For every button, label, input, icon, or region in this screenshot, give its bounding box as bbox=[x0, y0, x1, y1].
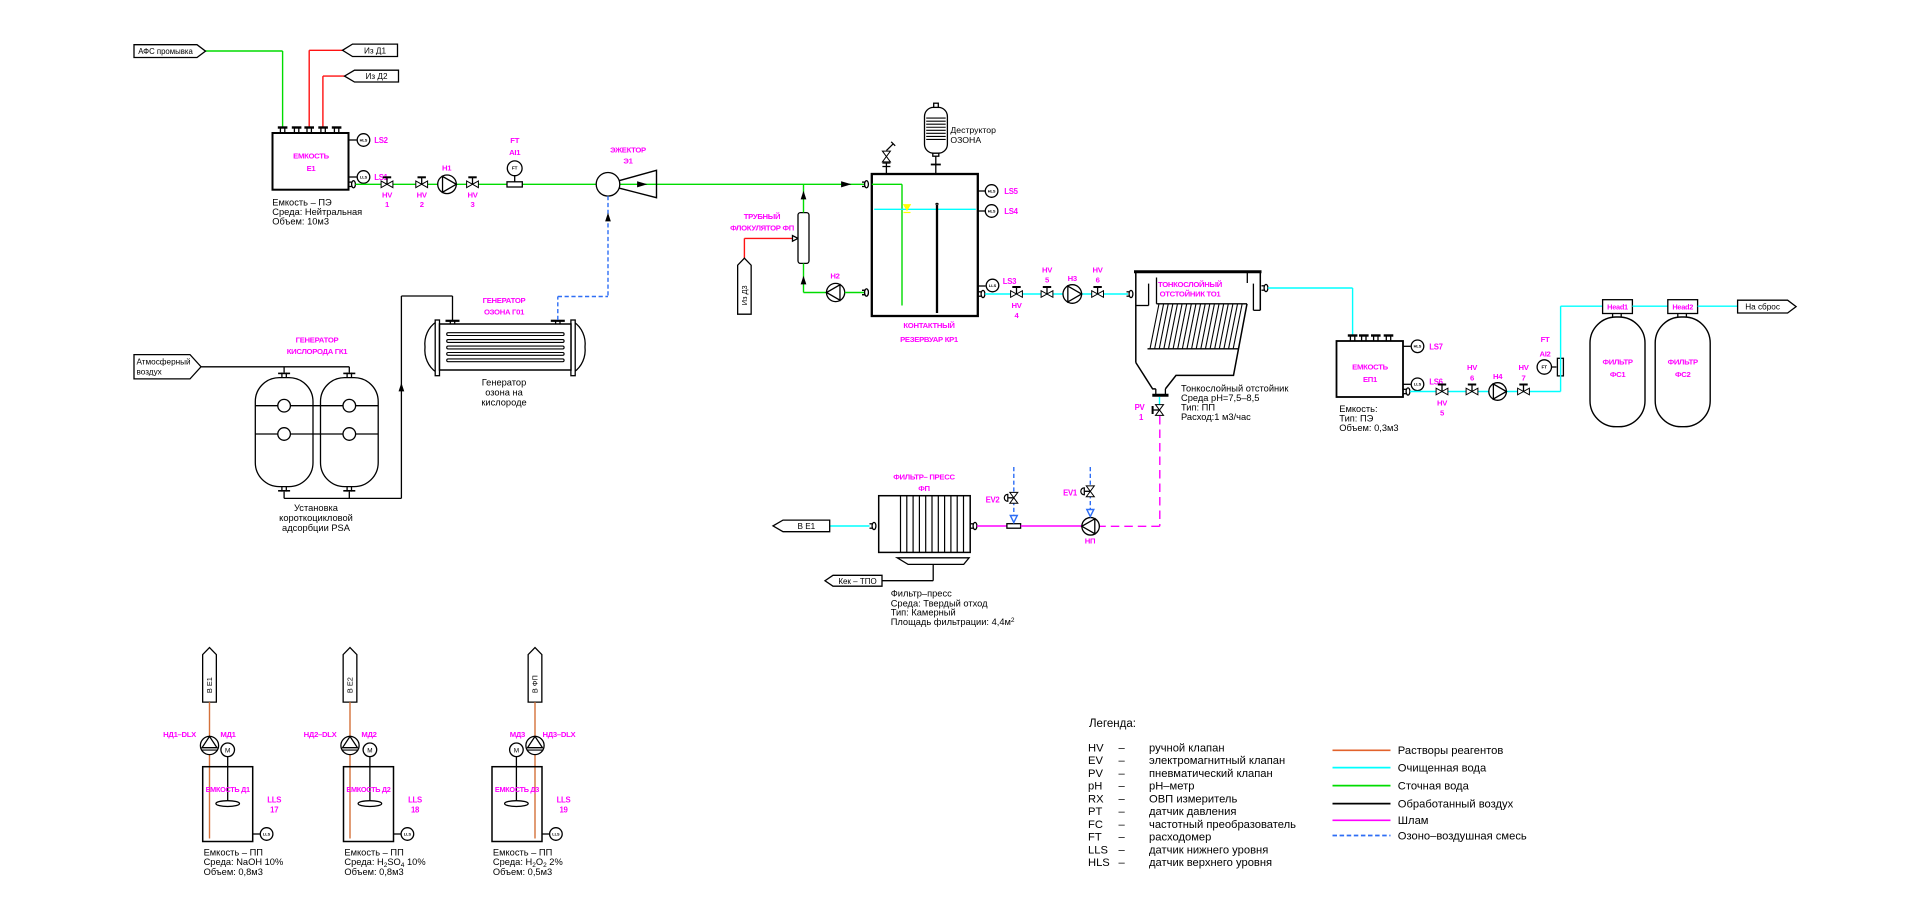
svg-text:HLS: HLS bbox=[988, 188, 996, 193]
svg-text:Озоно–воздушная смесь: Озоно–воздушная смесь bbox=[1398, 830, 1527, 842]
svg-text:HV: HV bbox=[1437, 399, 1448, 408]
svg-text:–: – bbox=[1119, 857, 1126, 869]
svg-text:18: 18 bbox=[411, 805, 420, 814]
svg-text:LS7: LS7 bbox=[1429, 342, 1442, 351]
svg-text:Емкость – ПП: Емкость – ПП bbox=[493, 847, 552, 857]
svg-text:Сточная вода: Сточная вода bbox=[1398, 780, 1470, 792]
svg-text:LLS: LLS bbox=[1088, 844, 1108, 856]
svg-text:В Е2: В Е2 bbox=[346, 677, 355, 693]
svg-text:PV: PV bbox=[1135, 403, 1146, 412]
svg-text:ОТСТОЙНИК ТО1: ОТСТОЙНИК ТО1 bbox=[1160, 290, 1222, 299]
svg-text:LS5: LS5 bbox=[1004, 187, 1018, 196]
svg-text:Кек – ТПО: Кек – ТПО bbox=[838, 577, 876, 586]
svg-text:Фильтр–пресс: Фильтр–пресс bbox=[891, 589, 952, 599]
svg-text:LLS: LLS bbox=[1414, 382, 1422, 387]
svg-text:ФЛОКУЛЯТОР ФП: ФЛОКУЛЯТОР ФП bbox=[730, 224, 795, 233]
svg-text:M: M bbox=[225, 747, 230, 754]
svg-text:EV2: EV2 bbox=[986, 496, 1001, 505]
svg-text:HLS: HLS bbox=[1088, 857, 1110, 869]
svg-text:ГЕНЕРАТОР: ГЕНЕРАТОР bbox=[296, 336, 339, 345]
svg-text:Емкость – ПП: Емкость – ПП bbox=[204, 847, 263, 857]
svg-text:В ФП: В ФП bbox=[531, 675, 540, 693]
svg-text:EV: EV bbox=[1088, 755, 1103, 767]
svg-text:На сброс: На сброс bbox=[1745, 303, 1780, 312]
svg-text:RX: RX bbox=[1088, 793, 1104, 805]
svg-text:КОНТАКТНЫЙ: КОНТАКТНЫЙ bbox=[903, 321, 955, 330]
svg-text:Деструктор: Деструктор bbox=[950, 125, 996, 135]
svg-text:3: 3 bbox=[471, 200, 475, 209]
svg-text:6: 6 bbox=[1470, 374, 1474, 383]
svg-text:HLS: HLS bbox=[1414, 344, 1422, 349]
svg-text:EV1: EV1 bbox=[1063, 489, 1078, 498]
svg-text:LLS: LLS bbox=[360, 174, 368, 179]
svg-text:Объем: 0,8м3: Объем: 0,8м3 bbox=[204, 867, 263, 877]
svg-text:ОЗОНА Г01: ОЗОНА Г01 bbox=[484, 308, 525, 317]
svg-text:Генератор: Генератор bbox=[482, 378, 527, 388]
svg-text:LLS: LLS bbox=[557, 795, 571, 804]
svg-text:МД3: МД3 bbox=[510, 730, 525, 739]
svg-text:МД2: МД2 bbox=[361, 730, 376, 739]
svg-text:LLS: LLS bbox=[404, 831, 412, 836]
svg-text:частотный преобразователь: частотный преобразователь bbox=[1149, 819, 1296, 831]
svg-text:пневматический клапан: пневматический клапан bbox=[1149, 768, 1273, 780]
svg-text:–: – bbox=[1119, 781, 1126, 793]
svg-text:HV: HV bbox=[1518, 363, 1529, 372]
svg-text:FT: FT bbox=[512, 166, 518, 171]
svg-text:PV: PV bbox=[1088, 768, 1103, 780]
svg-text:Из Д3: Из Д3 bbox=[740, 285, 749, 305]
svg-text:PT: PT bbox=[1088, 806, 1102, 818]
svg-text:Объем: 0,3м3: Объем: 0,3м3 bbox=[1339, 423, 1398, 433]
svg-text:–: – bbox=[1119, 832, 1126, 844]
svg-text:AI2: AI2 bbox=[1539, 350, 1550, 359]
svg-text:Атмосферный: Атмосферный bbox=[137, 357, 191, 366]
svg-text:–: – bbox=[1119, 742, 1126, 754]
svg-text:pH: pH bbox=[1088, 781, 1102, 793]
svg-text:Из Д2: Из Д2 bbox=[365, 72, 387, 81]
svg-text:НП: НП bbox=[1085, 537, 1096, 546]
svg-text:кислороде: кислороде bbox=[481, 398, 526, 408]
svg-text:LLS: LLS bbox=[267, 795, 281, 804]
svg-text:воздух: воздух bbox=[137, 368, 162, 377]
svg-text:Объем: 0,5м3: Объем: 0,5м3 bbox=[493, 867, 552, 877]
svg-text:Head2: Head2 bbox=[1672, 303, 1693, 312]
svg-text:Среда: NaOH 10%: Среда: NaOH 10% bbox=[204, 857, 284, 867]
svg-text:ФС2: ФС2 bbox=[1675, 370, 1691, 379]
svg-text:Расход:1 м3/час: Расход:1 м3/час bbox=[1181, 412, 1251, 422]
svg-text:HV: HV bbox=[382, 191, 393, 200]
svg-text:ФП: ФП bbox=[918, 484, 930, 493]
svg-text:6: 6 bbox=[1096, 276, 1100, 285]
svg-text:19: 19 bbox=[559, 805, 568, 814]
svg-text:ЭЖЕКТОР: ЭЖЕКТОР bbox=[610, 145, 646, 154]
svg-text:HV: HV bbox=[1088, 742, 1104, 754]
svg-text:Э1: Э1 bbox=[623, 157, 633, 166]
svg-text:17: 17 bbox=[270, 805, 278, 814]
svg-text:датчик верхнего уровня: датчик верхнего уровня bbox=[1149, 857, 1272, 869]
svg-text:Е1: Е1 bbox=[307, 164, 317, 173]
svg-text:Объем: 0,8м3: Объем: 0,8м3 bbox=[344, 867, 403, 877]
svg-text:НД3–DLX: НД3–DLX bbox=[543, 730, 577, 739]
svg-text:M: M bbox=[514, 747, 519, 754]
svg-text:–: – bbox=[1119, 844, 1126, 856]
svg-text:LLS: LLS bbox=[989, 283, 997, 288]
svg-text:датчик нижнего уровня: датчик нижнего уровня bbox=[1149, 844, 1268, 856]
svg-text:–: – bbox=[1119, 819, 1126, 831]
svg-text:HV: HV bbox=[467, 191, 478, 200]
svg-text:Тонкослойный отстойник: Тонкослойный отстойник bbox=[1181, 384, 1289, 394]
svg-text:короткоцикловой: короткоцикловой bbox=[279, 513, 353, 523]
svg-text:ФИЛЬТР– ПРЕСС: ФИЛЬТР– ПРЕСС bbox=[893, 473, 955, 482]
svg-text:FT: FT bbox=[1541, 335, 1550, 344]
svg-text:АФС промывка: АФС промывка bbox=[138, 47, 193, 56]
svg-text:электромагнитный клапан: электромагнитный клапан bbox=[1149, 755, 1285, 767]
svg-text:Установка: Установка bbox=[294, 503, 339, 513]
svg-text:ФИЛЬТР: ФИЛЬТР bbox=[1668, 358, 1698, 367]
svg-text:Объем: 10м3: Объем: 10м3 bbox=[272, 216, 329, 226]
svg-text:датчик давления: датчик давления bbox=[1149, 806, 1236, 818]
svg-text:LLS: LLS bbox=[263, 831, 271, 836]
svg-text:Легенда:: Легенда: bbox=[1089, 718, 1136, 730]
svg-text:M: M bbox=[367, 747, 372, 754]
svg-text:FT: FT bbox=[1088, 832, 1102, 844]
svg-text:H3: H3 bbox=[1068, 274, 1077, 283]
svg-text:HLS: HLS bbox=[360, 137, 368, 142]
svg-text:7: 7 bbox=[1522, 374, 1526, 383]
svg-text:ЕМКОСТЬ: ЕМКОСТЬ bbox=[293, 152, 329, 161]
svg-text:Очищенная вода: Очищенная вода bbox=[1398, 762, 1487, 774]
svg-text:H1: H1 bbox=[442, 164, 452, 173]
svg-text:ОЗОНА: ОЗОНА bbox=[950, 135, 981, 145]
svg-text:LLS: LLS bbox=[552, 831, 560, 836]
svg-text:Площадь фильтрации: 4,4м2: Площадь фильтрации: 4,4м2 bbox=[891, 617, 1015, 627]
svg-text:В Е1: В Е1 bbox=[797, 522, 815, 531]
svg-text:НД1–DLX: НД1–DLX bbox=[163, 730, 197, 739]
svg-text:pH–метр: pH–метр bbox=[1149, 781, 1194, 793]
svg-text:LS2: LS2 bbox=[374, 136, 388, 145]
svg-text:ЕМКОСТЬ Д3: ЕМКОСТЬ Д3 bbox=[495, 785, 539, 794]
svg-text:ФС1: ФС1 bbox=[1610, 370, 1627, 379]
svg-text:ЕП1: ЕП1 bbox=[1363, 375, 1378, 384]
svg-text:LS3: LS3 bbox=[1003, 277, 1017, 286]
svg-text:ТОНКОСЛОЙНЫЙ: ТОНКОСЛОЙНЫЙ bbox=[1158, 280, 1223, 289]
svg-text:ручной клапан: ручной клапан bbox=[1149, 742, 1225, 754]
svg-text:–: – bbox=[1119, 806, 1126, 818]
svg-text:LS4: LS4 bbox=[1004, 207, 1018, 216]
svg-text:FT: FT bbox=[510, 136, 519, 145]
svg-text:FC: FC bbox=[1088, 819, 1103, 831]
svg-text:ЕМКОСТЬ: ЕМКОСТЬ bbox=[1352, 363, 1388, 372]
svg-text:HV: HV bbox=[1467, 363, 1478, 372]
svg-text:–: – bbox=[1119, 755, 1126, 767]
svg-text:Из Д1: Из Д1 bbox=[364, 46, 386, 55]
svg-text:H2: H2 bbox=[830, 272, 839, 281]
svg-text:Обработанный воздух: Обработанный воздух bbox=[1398, 798, 1514, 810]
svg-text:–: – bbox=[1119, 768, 1126, 780]
svg-text:ЕМКОСТЬ Д1: ЕМКОСТЬ Д1 bbox=[206, 785, 250, 794]
svg-text:ОВП измеритель: ОВП измеритель bbox=[1149, 793, 1237, 805]
svg-text:H4: H4 bbox=[1493, 372, 1503, 381]
svg-text:ФИЛЬТР: ФИЛЬТР bbox=[1602, 358, 1632, 367]
svg-text:Растворы реагентов: Растворы реагентов bbox=[1398, 745, 1504, 757]
svg-text:ГЕНЕРАТОР: ГЕНЕРАТОР bbox=[483, 296, 526, 305]
svg-text:FT: FT bbox=[1541, 364, 1547, 369]
svg-text:Head1: Head1 bbox=[1607, 303, 1628, 312]
svg-text:HLS: HLS bbox=[988, 208, 996, 213]
svg-text:адсорбции PSA: адсорбции PSA bbox=[282, 523, 351, 533]
svg-text:НД2–DLX: НД2–DLX bbox=[304, 730, 338, 739]
svg-text:AI1: AI1 bbox=[509, 148, 521, 157]
svg-text:РЕЗЕРВУАР КР1: РЕЗЕРВУАР КР1 bbox=[900, 335, 959, 344]
svg-text:2: 2 bbox=[420, 200, 424, 209]
svg-text:МД1: МД1 bbox=[220, 730, 236, 739]
svg-text:HV: HV bbox=[1042, 266, 1053, 275]
svg-text:HV: HV bbox=[1011, 301, 1022, 310]
svg-text:–: – bbox=[1119, 793, 1126, 805]
svg-text:HV: HV bbox=[417, 191, 428, 200]
svg-text:озона на: озона на bbox=[485, 388, 523, 398]
svg-text:ЕМКОСТЬ Д2: ЕМКОСТЬ Д2 bbox=[346, 785, 390, 794]
svg-text:Шлам: Шлам bbox=[1398, 815, 1429, 827]
svg-text:Емкость – ПП: Емкость – ПП bbox=[344, 847, 403, 857]
svg-text:LLS: LLS bbox=[408, 795, 422, 804]
svg-text:В Е1: В Е1 bbox=[205, 677, 214, 693]
svg-text:ТРУБНЫЙ: ТРУБНЫЙ bbox=[744, 212, 781, 221]
svg-text:КИСЛОРОДА ГК1: КИСЛОРОДА ГК1 bbox=[287, 347, 348, 356]
svg-text:расходомер: расходомер bbox=[1149, 832, 1211, 844]
svg-text:HV: HV bbox=[1093, 266, 1104, 275]
